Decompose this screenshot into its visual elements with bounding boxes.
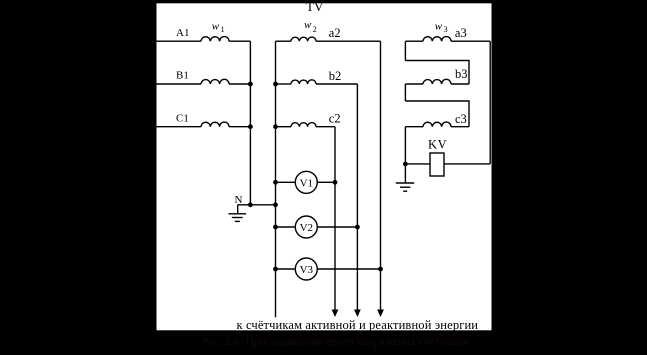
- svg-text:V3: V3: [300, 264, 314, 276]
- winding coil w1 phase A: [201, 37, 229, 42]
- winding coil w2 phase a2: [291, 37, 316, 41]
- voltmeter V2: [295, 216, 317, 238]
- wire b2 row left: [276, 83, 292, 85]
- wire c3 row left: [405, 126, 423, 128]
- winding coil phase C: [201, 122, 229, 127]
- wire c2 drop: [334, 127, 336, 310]
- svg-text:a3: a3: [455, 26, 467, 40]
- wire phase B1 lead: [156, 83, 201, 85]
- wire a3 left drop: [404, 41, 406, 60]
- wire link b3-c3: [405, 101, 469, 127]
- junction dot bus B1: [248, 82, 253, 87]
- wire b3 row left: [405, 83, 423, 85]
- winding coil phase b2: [291, 80, 316, 84]
- wire c2 coil to corner: [316, 126, 335, 128]
- wire voltmeter V1 leads: [276, 181, 336, 183]
- wire relay to right bus: [444, 163, 490, 165]
- wire b3 coil to link: [451, 83, 469, 85]
- wire A1 coil to bus: [229, 40, 250, 42]
- wire b2 coil to corner: [316, 83, 357, 85]
- wire phase A1 lead: [156, 40, 201, 42]
- wire a3 coil to right bus: [451, 40, 490, 42]
- ground neutral: [228, 214, 246, 222]
- winding coil w3 phase a3: [423, 37, 451, 42]
- svg-text:V1: V1: [300, 177, 313, 189]
- winding coil phase b3: [423, 79, 451, 84]
- svg-text:w: w: [212, 20, 220, 32]
- wire a2 row left: [276, 40, 292, 42]
- junction dot secondary bus V2: [273, 225, 278, 230]
- svg-text:2: 2: [313, 25, 317, 34]
- voltmeter V3: [295, 258, 317, 280]
- wire voltmeter V3 leads: [276, 268, 381, 270]
- relay KV: [430, 153, 444, 176]
- wire right bus: [489, 41, 491, 164]
- svg-text:b2: b2: [329, 69, 342, 83]
- junction dot V3 to a2 drop: [378, 267, 383, 272]
- svg-text:V2: V2: [300, 222, 313, 234]
- paper background: [157, 3, 492, 330]
- ground relay: [396, 183, 414, 191]
- junction dot secondary bus V1: [273, 180, 278, 185]
- junction dot V2 to b2 drop: [355, 225, 360, 230]
- winding coil phase B: [201, 79, 229, 84]
- junction dot secondary bus N: [273, 202, 278, 207]
- wire link a3-b3: [405, 61, 469, 85]
- junction dot secondary bus V3: [273, 267, 278, 272]
- voltmeter V1: [295, 171, 317, 193]
- arrowhead c2: [332, 310, 339, 318]
- arrowhead b2: [354, 310, 361, 318]
- wire relay ground stub: [404, 164, 406, 183]
- junction dot bus C1: [248, 124, 253, 129]
- svg-text:A1: A1: [176, 27, 189, 39]
- junction dot V1 to c2 drop: [333, 180, 338, 185]
- svg-text:1: 1: [221, 25, 225, 34]
- winding coil phase c3: [423, 122, 451, 127]
- svg-text:a2: a2: [329, 26, 341, 40]
- svg-text:w: w: [435, 20, 443, 32]
- svg-text:c2: c2: [329, 111, 341, 125]
- wire a3 row: [405, 40, 423, 42]
- wire voltmeter V2 leads: [276, 226, 358, 228]
- svg-text:b3: b3: [455, 67, 468, 81]
- svg-text:w: w: [304, 19, 312, 31]
- svg-text:C1: C1: [176, 112, 189, 124]
- junction dot secondary bus c2: [273, 124, 278, 129]
- wire secondary bus: [275, 41, 277, 317]
- wire a2 drop: [380, 41, 382, 310]
- wire C1 coil to bus: [229, 126, 250, 128]
- svg-text:c3: c3: [455, 112, 467, 126]
- svg-text:к счётчикам активной и реактив: к счётчикам активной и реактивной энерги…: [237, 318, 479, 332]
- junction dot bus N: [248, 202, 253, 207]
- wire c3 left drop to relay row: [404, 127, 406, 164]
- svg-text:Рис. 2.6. Присоединение цепей: Рис. 2.6. Присоединение цепей напряжения…: [202, 336, 468, 348]
- winding coil phase c2: [291, 123, 316, 127]
- svg-text:3: 3: [444, 25, 448, 34]
- wire neutral ground stub: [237, 205, 239, 214]
- junction dot relay ground: [403, 162, 408, 167]
- svg-text:KV: KV: [428, 138, 447, 152]
- wire c2 row left: [276, 126, 292, 128]
- wire B1 coil to bus: [229, 83, 250, 85]
- svg-text:N: N: [235, 194, 243, 206]
- wire b2 drop: [356, 84, 358, 310]
- wire primary star bus: [249, 41, 251, 205]
- wire a2 coil to corner: [316, 40, 381, 42]
- svg-text:B1: B1: [176, 70, 189, 82]
- wire relay row left: [405, 163, 430, 165]
- wire b3 left drop: [404, 84, 406, 101]
- wire neutral N link: [238, 204, 276, 206]
- wire phase C1 lead: [156, 126, 201, 128]
- junction dot secondary bus b2: [273, 82, 278, 87]
- top border strip: [0, 0, 647, 3]
- arrowhead a2: [377, 310, 384, 318]
- wire c3 coil to link: [451, 126, 469, 128]
